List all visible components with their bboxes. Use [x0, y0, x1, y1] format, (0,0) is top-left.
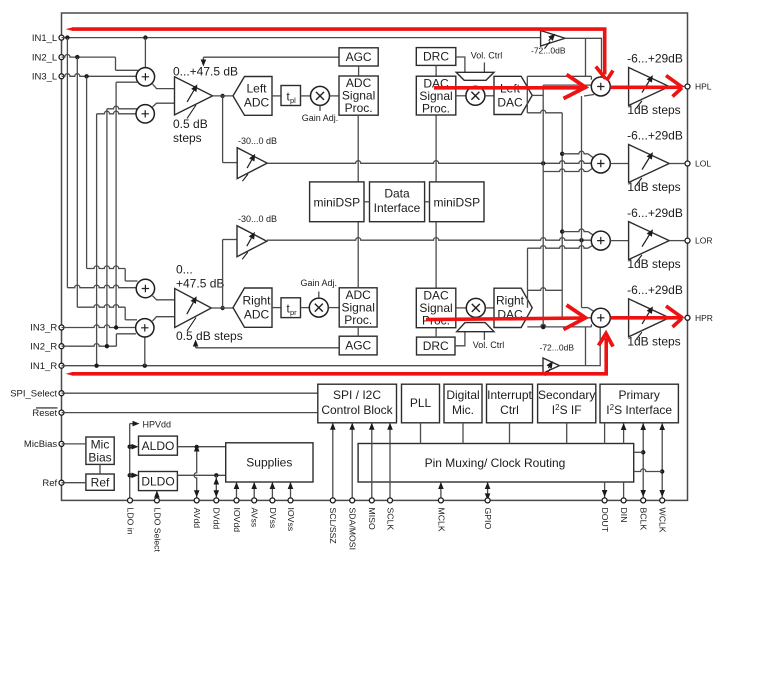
block ALDO — [139, 436, 178, 455]
wire Interrupt to pinmux — [509, 423, 511, 444]
bottom pin SCL/SSZ — [330, 498, 335, 503]
svg-text:Ref: Ref — [91, 475, 110, 489]
pin HPL — [685, 84, 690, 89]
wire Reset — [62, 412, 318, 414]
block DLDO — [139, 472, 178, 491]
wire DAC lower branch left — [526, 95, 528, 112]
node PGA-R output — [220, 306, 224, 310]
bottom pin IOVdd — [234, 498, 239, 503]
wire IN3_R elbow to ML1 — [116, 81, 137, 83]
wire GPIO — [487, 482, 489, 500]
svg-text:DIN: DIN — [619, 508, 629, 523]
pin MicBias — [59, 441, 64, 446]
bus vertical IN2_R up — [106, 109, 108, 346]
svg-text:SDA/MOSI: SDA/MOSI — [348, 508, 358, 550]
wire LOL bottom entry — [543, 169, 588, 172]
svg-text:HPR: HPR — [695, 313, 713, 323]
bus vertical IN1_R up — [96, 114, 98, 366]
svg-text:1dB steps: 1dB steps — [627, 180, 680, 194]
wire AGC-ADC — [358, 66, 360, 76]
svg-text:pr: pr — [290, 308, 297, 317]
pin Reset — [59, 410, 64, 415]
wire MicBias — [62, 443, 86, 445]
block tpr — [281, 298, 301, 318]
wire X to Left DAC — [485, 95, 494, 97]
svg-text:DOUT: DOUT — [600, 508, 610, 533]
svg-text:IOVss: IOVss — [286, 508, 296, 532]
wire ML2 to PGA — [153, 103, 175, 107]
wire HPR top entry — [582, 307, 589, 309]
wire PGA-R to Right ADC — [211, 307, 233, 309]
wire DRC-L down — [435, 65, 437, 76]
wire DataIF-miniDSP2 — [425, 201, 430, 203]
bottom pin MCLK — [438, 498, 443, 503]
block miniDSP dac — [430, 182, 485, 222]
wire amp-HPL to pin — [669, 86, 685, 88]
svg-text:0...: 0... — [176, 263, 193, 277]
label Gain Adj. right — [318, 292, 320, 299]
amp HPL driver -6..+29dB — [629, 68, 670, 106]
wire IN1_R elbow to ML2 — [97, 111, 137, 114]
wire Secondary to pinmux — [566, 423, 568, 444]
wire HPR bottom entry — [527, 324, 591, 327]
svg-text:LDO Select: LDO Select — [152, 508, 162, 553]
amp -72..0dB top — [541, 31, 565, 47]
bottom pin BCLK — [641, 498, 646, 503]
amp left PGA 0..+47.5dB — [175, 77, 213, 115]
svg-text:AVdd: AVdd — [192, 508, 202, 529]
bus vertical v543 — [542, 85, 544, 327]
bottom pin AVss — [252, 498, 257, 503]
wire amp-HPR to pin — [669, 317, 685, 319]
wire DACSP-R to X — [456, 307, 467, 309]
svg-text:Interrupt: Interrupt — [487, 388, 532, 402]
wire HPL bottom to v581 — [584, 95, 594, 97]
block DRC right — [417, 337, 456, 355]
block Ref — [86, 474, 114, 490]
svg-text:Mic: Mic — [91, 437, 110, 451]
svg-text:WCLK: WCLK — [658, 508, 668, 533]
wire ADCSP-AGC right — [357, 327, 359, 336]
wire ctrl pin x352.2 — [351, 423, 353, 501]
bottom pin LDO in — [128, 498, 133, 503]
ADC pentagon Left ADC — [233, 77, 272, 116]
block Digital Mic — [444, 384, 482, 423]
volume trapezoid left — [456, 72, 494, 80]
svg-text:DAC: DAC — [497, 96, 523, 110]
wire ADC to tpr — [272, 307, 281, 309]
svg-text:-6...+29dB: -6...+29dB — [627, 206, 683, 220]
wire PLL to pinmux — [420, 423, 422, 444]
svg-text:MicBias: MicBias — [24, 439, 58, 450]
svg-text:PLL: PLL — [410, 396, 432, 410]
wire MicBias-Ref — [99, 464, 101, 474]
svg-text:-30...0 dB: -30...0 dB — [238, 136, 277, 146]
svg-text:Ref: Ref — [42, 478, 57, 489]
bus vertical IN3_L — [86, 76, 88, 268]
bottom pin DIN — [621, 498, 626, 503]
svg-text:AVss: AVss — [250, 508, 260, 528]
wire -72amp-L out elbow — [565, 38, 602, 77]
bottom pin AVdd — [194, 498, 199, 503]
wire PGA-R up to -30dB amp right — [222, 240, 224, 309]
wire ctrl pin x332.8 — [332, 423, 334, 501]
bottom pin GPIO — [485, 498, 490, 503]
svg-text:Gain Adj.: Gain Adj. — [301, 278, 338, 288]
wire LOR top entry — [562, 229, 588, 232]
wire HPR mid entry — [532, 317, 591, 319]
svg-text:SCLK: SCLK — [385, 508, 395, 531]
pin LOL — [685, 161, 690, 166]
wire IN1_R horizontal to -72dB amp — [62, 365, 544, 367]
wire supply pin x236.5 — [236, 482, 238, 500]
svg-text:I2S Interface: I2S Interface — [606, 403, 672, 417]
svg-text:Control Block: Control Block — [321, 403, 393, 417]
wire LDO_in riser HPVdd — [129, 424, 131, 501]
svg-text:SPI / I2C: SPI / I2C — [333, 388, 381, 402]
wire supply pin x254.2 — [253, 482, 255, 500]
pin IN1_L — [59, 35, 64, 40]
summing mixer HPL — [591, 77, 610, 96]
amp HPR driver -6..+29dB — [629, 299, 670, 337]
mixer MR2 — [136, 319, 154, 337]
svg-text:LOR: LOR — [695, 236, 712, 246]
svg-text:Gain Adj.: Gain Adj. — [302, 113, 339, 123]
wire amp-LOR to pin — [669, 240, 685, 242]
wire ML1 to PGA — [153, 84, 175, 89]
AGC feedback arrow right — [196, 347, 340, 349]
wire LOL top entry — [562, 151, 588, 154]
mixer MR1 — [136, 279, 154, 297]
row IN2_L to MR2 jog — [77, 305, 125, 308]
red arrow DAC to HPL mixer — [434, 86, 584, 90]
wire DigMic to pinmux — [462, 423, 464, 444]
summing mixer HPR — [591, 308, 610, 327]
long wire right analog to LOR mixer — [267, 238, 592, 241]
svg-text:IN2_R: IN2_R — [30, 341, 57, 352]
wire X to Right DAC — [485, 307, 494, 309]
chip outline border — [62, 13, 688, 500]
block ADC Signal Proc right — [339, 288, 377, 327]
svg-text:HPVdd: HPVdd — [143, 419, 172, 429]
block Secondary I2S IF — [538, 384, 596, 423]
bus vertical IN1_L — [66, 38, 68, 288]
svg-text:BCLK: BCLK — [639, 508, 649, 531]
svg-text:Left: Left — [246, 82, 267, 96]
wire mixer-HPR to amp — [610, 317, 628, 319]
wire DOUT — [604, 423, 606, 444]
block AGC right — [339, 336, 377, 355]
amp -72..0dB bottom — [543, 358, 559, 373]
wire Left DAC tip link — [526, 76, 528, 95]
wire to DLDO — [130, 474, 133, 476]
wire to ALDO — [130, 446, 133, 448]
DAC pentagon Left DAC — [494, 76, 532, 114]
svg-text:Proc.: Proc. — [422, 101, 450, 115]
block SPI I2C Control Block — [318, 384, 397, 423]
svg-text:IN2_L: IN2_L — [32, 52, 57, 63]
svg-text:-6...+29dB: -6...+29dB — [627, 129, 683, 143]
svg-text:DRC: DRC — [423, 49, 449, 63]
pin SPI_Select — [59, 391, 64, 396]
red arrow HPL mixer to HPL pin — [611, 86, 682, 90]
svg-text:LDO in: LDO in — [125, 508, 135, 535]
wire ADCSP-L to miniDSP1 — [357, 115, 359, 182]
svg-text:HPL: HPL — [695, 82, 712, 92]
svg-text:Pin Muxing/ Clock Routing: Pin Muxing/ Clock Routing — [425, 456, 566, 470]
pin Ref — [59, 480, 64, 485]
svg-text:ALDO: ALDO — [142, 439, 175, 453]
block tpl — [281, 86, 301, 106]
wire miniDSP2 to DACSP-R — [435, 222, 437, 289]
svg-text:Right: Right — [242, 294, 271, 308]
block DRC left — [416, 48, 456, 66]
wire LDO_Select — [156, 491, 158, 501]
svg-text:Interface: Interface — [374, 201, 421, 215]
wire tpr to multiplier — [301, 307, 310, 309]
svg-text:Proc.: Proc. — [345, 101, 373, 115]
bottom pin SDA/MOSI — [350, 498, 355, 503]
wire LOR bottom entry — [528, 246, 589, 249]
wire DRC-L to VolCtrl — [456, 57, 465, 72]
wire amp-LOL to pin — [669, 163, 685, 165]
wire PGA-L down to -30dB amp — [222, 96, 224, 163]
svg-text:Data: Data — [384, 187, 410, 201]
svg-text:AGC: AGC — [345, 339, 371, 353]
mixer ML2 — [136, 105, 154, 123]
summing mixer LOR — [591, 231, 610, 250]
block DAC Signal Proc left — [416, 76, 456, 115]
amp -30..0dB right — [237, 226, 267, 257]
block ADC Signal Proc left — [339, 76, 378, 115]
wire DIN — [623, 423, 625, 444]
HPVdd arrow — [130, 423, 134, 425]
multiplier X right — [309, 298, 328, 317]
svg-text:DLDO: DLDO — [141, 475, 174, 489]
node PGA-L output — [220, 94, 224, 98]
row IN3_L to MR1 jog — [87, 266, 126, 269]
svg-text:Mic.: Mic. — [452, 403, 474, 417]
wire MR2 to PGA-R — [153, 317, 175, 321]
wire DRC-R to VolCtrl — [455, 332, 465, 346]
wire supply pin x272.4 — [271, 482, 273, 500]
wire PGA-L to Left ADC — [213, 95, 233, 97]
wire AVdd vertical — [194, 447, 197, 498]
svg-text:Bias: Bias — [88, 450, 111, 464]
wire BCLK — [642, 423, 644, 500]
wire X to ADC Signal Proc — [330, 95, 340, 97]
wire DAC upper branch right — [528, 288, 563, 291]
wire ALDO out to Supplies — [177, 446, 225, 448]
svg-text:IN3_R: IN3_R — [30, 323, 57, 334]
svg-text:DVdd: DVdd — [212, 508, 222, 530]
wire DLDO out to Supplies — [177, 474, 225, 476]
bottom pin DOUT — [602, 498, 607, 503]
bottom pin DVdd — [214, 498, 219, 503]
svg-text:steps: steps — [173, 131, 202, 145]
svg-text:IN1_L: IN1_L — [32, 33, 57, 44]
long wire left analog to LOL mixer — [267, 161, 591, 164]
svg-text:-72...0dB: -72...0dB — [540, 343, 575, 353]
wire HPL upper elbow — [527, 75, 591, 77]
pin IN2_L — [59, 55, 64, 60]
svg-text:AGC: AGC — [346, 50, 372, 64]
wire SPI_Select — [62, 392, 318, 394]
ADC pentagon Right ADC — [233, 288, 272, 327]
bus vertical v562 — [561, 113, 563, 318]
multiplier X left — [311, 86, 330, 105]
wire mixer-LOL to amp — [610, 163, 628, 165]
svg-text:Vol. Ctrl: Vol. Ctrl — [471, 51, 503, 61]
svg-text:Vol. Ctrl: Vol. Ctrl — [473, 340, 505, 350]
wire DACSP-L to X — [456, 95, 466, 97]
pin HPR — [685, 315, 690, 320]
wire DVdd vertical — [215, 475, 217, 497]
block Supplies — [226, 443, 313, 482]
svg-text:Secondary: Secondary — [538, 388, 595, 402]
bus vertical IN2_L — [76, 57, 78, 307]
wire miniDSP1 to ADCSP-R — [357, 222, 359, 288]
bus vertical v581 — [581, 96, 583, 308]
svg-text:Supplies: Supplies — [246, 456, 292, 470]
pin IN1_R — [59, 363, 64, 368]
wire IN3_R to mixer MR2 — [62, 325, 136, 328]
block Interrupt Ctrl — [487, 384, 533, 423]
pin IN3_R — [59, 325, 64, 330]
svg-text:0.5 dB: 0.5 dB — [173, 117, 208, 131]
red bypass line IN1_L to HPL mixer — [72, 29, 605, 74]
svg-text:+47.5 dB: +47.5 dB — [176, 277, 224, 291]
wire IN2_L elbow to ML1 — [115, 57, 117, 70]
svg-text:-6...+29dB: -6...+29dB — [627, 52, 683, 66]
multiplier X DAC left — [466, 86, 485, 105]
block Mic Bias — [86, 437, 114, 464]
wire IN1_L horizontal to -72dB amp — [62, 37, 541, 39]
bottom pin LDO Select — [154, 498, 159, 503]
svg-text:0.5 dB steps: 0.5 dB steps — [176, 329, 243, 343]
wire mixer-LOR to amp — [610, 240, 628, 242]
wire WCLK — [661, 423, 663, 500]
label Gain Adj. left — [319, 105, 321, 111]
wire X to ADC Signal Proc right — [328, 307, 339, 309]
svg-text:SPI_Select: SPI_Select — [10, 388, 57, 399]
wire Ref — [62, 482, 86, 484]
bottom pin WCLK — [660, 498, 665, 503]
svg-text:0...+47.5 dB: 0...+47.5 dB — [173, 65, 238, 79]
svg-text:Digital: Digital — [446, 388, 479, 402]
amp -30..0dB left — [237, 148, 267, 179]
block Primary I2S Interface — [600, 384, 678, 423]
bottom pin DVss — [270, 498, 275, 503]
svg-text:IOVdd: IOVdd — [232, 508, 242, 533]
wire IN1_R rise to MR2 — [144, 337, 146, 365]
block miniDSP adc — [310, 182, 364, 222]
svg-text:-72...0dB: -72...0dB — [531, 46, 566, 56]
wire IN1_L drop to ML1 — [144, 38, 146, 67]
wire ADC to tpl — [272, 95, 281, 97]
svg-text:IN1_R: IN1_R — [30, 361, 57, 372]
wire -72amp-R out elbow — [559, 328, 600, 366]
red arrow DAC to HPR mixer — [426, 318, 584, 320]
wire supply pin x290.5 — [290, 482, 292, 500]
wire HPL mid entry — [543, 84, 591, 86]
svg-text:pl: pl — [290, 96, 296, 105]
mixer ML1 — [136, 68, 154, 86]
wire branch to HPL upper entry — [585, 38, 587, 76]
wire MCLK — [440, 482, 442, 500]
pin IN3_L — [59, 74, 64, 79]
svg-text:-30...0 dB: -30...0 dB — [238, 214, 277, 224]
row IN1_L to MR1 — [67, 285, 135, 288]
svg-text:Proc.: Proc. — [344, 313, 372, 327]
bottom pin MISO — [369, 498, 374, 503]
wire ctrl pin x390 — [389, 423, 391, 501]
wire miniDSP2 to DACSP-L — [435, 115, 437, 182]
svg-text:MCLK: MCLK — [436, 508, 446, 532]
amp LOR driver -6..+29dB — [629, 222, 670, 260]
svg-text:Ctrl: Ctrl — [500, 403, 519, 417]
wire tpl to multiplier — [301, 95, 311, 97]
DAC pentagon Right DAC — [494, 288, 532, 327]
block Pin Muxing Clock Routing — [358, 444, 634, 483]
svg-text:ADC: ADC — [244, 96, 270, 110]
block PLL — [402, 384, 440, 423]
bottom pin IOVss — [288, 498, 293, 503]
svg-text:DVss: DVss — [268, 508, 278, 529]
pin LOR — [685, 238, 690, 243]
svg-text:ADC: ADC — [244, 308, 270, 322]
block AGC left — [339, 48, 378, 66]
amp LOL driver -6..+29dB — [629, 145, 670, 183]
svg-text:-6...+29dB: -6...+29dB — [627, 283, 683, 297]
svg-text:Primary: Primary — [619, 388, 660, 402]
wire DACSP-R down — [435, 328, 437, 337]
pin IN2_R — [59, 344, 64, 349]
wire branch to HPR lower entry — [585, 327, 587, 365]
bottom pin SCLK — [388, 498, 393, 503]
svg-text:LOL: LOL — [695, 159, 711, 169]
svg-text:Reset: Reset — [32, 408, 57, 419]
svg-text:1dB steps: 1dB steps — [627, 257, 680, 271]
svg-text:DRC: DRC — [423, 339, 449, 353]
wire ctrl pin x371.8 — [371, 423, 373, 501]
amp right PGA 0..+47.5dB — [175, 289, 212, 328]
svg-text:GPIO: GPIO — [483, 508, 493, 530]
wire IN2_R elbow to ML2 — [107, 106, 137, 109]
svg-text:1dB steps: 1dB steps — [627, 334, 680, 348]
svg-text:Right: Right — [496, 294, 525, 308]
red arrow HPR mixer to HPR pin — [611, 316, 682, 320]
summing mixer LOL — [591, 154, 610, 173]
multiplier X DAC right — [466, 298, 485, 317]
wire IN2_L — [62, 55, 116, 58]
block DAC Signal Proc right — [416, 288, 456, 328]
svg-text:1dB steps: 1dB steps — [627, 103, 680, 117]
svg-text:MISO: MISO — [367, 508, 377, 530]
wire IN3_L to mixer ML1 — [62, 74, 136, 77]
svg-text:IN3_L: IN3_L — [32, 72, 57, 83]
wire IN2_R — [62, 344, 117, 347]
wire mixer-HPL to amp — [610, 86, 628, 88]
svg-text:miniDSP: miniDSP — [433, 196, 480, 210]
bus vertical IN3_R up — [115, 82, 117, 327]
AGC feedback arrow left — [203, 56, 339, 58]
svg-text:SCL/SSZ: SCL/SSZ — [328, 508, 338, 545]
svg-text:miniDSP: miniDSP — [313, 196, 360, 210]
wire MR1 to PGA-R — [153, 296, 175, 300]
volume trapezoid right — [457, 323, 494, 332]
block Data Interface — [370, 182, 425, 222]
